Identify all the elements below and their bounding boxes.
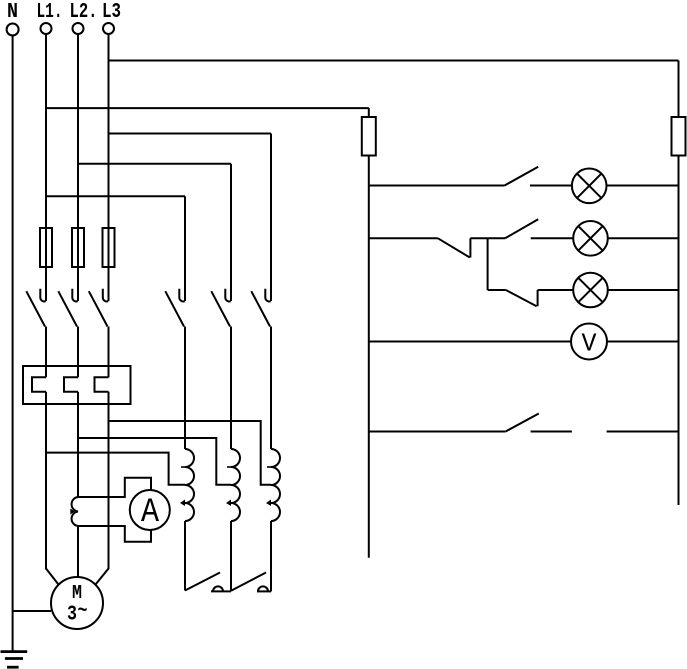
autotransformer winding tap arrow xyxy=(226,500,231,507)
star contact KM2-1 hook xyxy=(213,586,223,591)
wire tap line phase1 xyxy=(46,453,185,485)
fuse FU1 xyxy=(40,228,52,267)
contactor KM1 pole 1 blade xyxy=(165,291,184,326)
control bus right vertical upper xyxy=(678,61,680,118)
contactor KM1 pole 2 blade xyxy=(211,291,230,326)
contactor KM1 pole 3 hook xyxy=(265,289,270,302)
motor M circle xyxy=(51,577,103,629)
wire branch 1 to winding xyxy=(184,327,186,450)
row1 switch blade xyxy=(505,167,539,186)
autotransformer winding 2 xyxy=(231,449,240,521)
voltmeter PV xyxy=(571,324,607,360)
terminal L1 xyxy=(41,23,52,34)
svg-text:L3: L3 xyxy=(102,1,121,24)
winding cusp tick xyxy=(267,466,271,468)
winding cusp tick xyxy=(227,466,231,468)
contactor KM1 pole 1 hook xyxy=(179,289,184,302)
autotransformer winding 3 xyxy=(271,449,280,521)
lamp HL3 xyxy=(573,273,608,308)
contactor KM1 pole 2 hook xyxy=(225,289,230,302)
star contact KM2-1 blade xyxy=(185,573,220,591)
row5 switch blade xyxy=(506,414,539,432)
row1 lamp wire left xyxy=(369,185,505,187)
terminal L3 xyxy=(103,23,114,34)
terminal N xyxy=(7,24,19,36)
thermal relay FR heater 2 xyxy=(64,377,78,392)
wire tap line phase3 xyxy=(109,421,272,485)
wire branch 2 to winding xyxy=(230,327,232,450)
selector SA bar upper xyxy=(469,238,471,257)
breaker QS pole 1 blade xyxy=(26,291,45,326)
row2 wire mid2 xyxy=(531,237,574,239)
terminal L2 xyxy=(73,23,84,34)
row3 wire left xyxy=(488,289,506,291)
thermal relay FR heater 1 xyxy=(32,377,46,392)
ground xyxy=(1,652,28,668)
wire L2 to motor xyxy=(77,526,79,577)
wire L1 vertical upper xyxy=(45,34,47,301)
wire L3 below QS xyxy=(108,327,110,378)
row3 wire right xyxy=(608,289,679,291)
contactor KM branch 3 wire upper xyxy=(270,134,272,302)
wire L1 branch to KM branch 1 xyxy=(46,195,185,197)
row1 lamp wire mid xyxy=(530,185,573,187)
row2 wire right xyxy=(608,237,679,239)
wire L1 below FR to motor xyxy=(46,392,59,585)
wire L1 below QS xyxy=(45,327,47,378)
thermal relay FR heater 3 xyxy=(95,377,109,392)
star contact KM2-2 rail xyxy=(257,590,271,592)
contactor KM branch 1 wire upper xyxy=(184,196,186,301)
wire N to motor frame xyxy=(13,610,51,612)
breaker QS pole 1 hook xyxy=(40,289,45,302)
control fuse FU4 wire upper xyxy=(368,108,370,117)
autotransformer winding tap arrow xyxy=(180,500,185,507)
wire L2 below QS xyxy=(77,327,79,378)
lamp HL1 xyxy=(572,169,607,204)
selector SA blade lower xyxy=(506,290,537,306)
current transformer winding on L2 xyxy=(72,497,78,526)
fuse FU2 xyxy=(72,228,84,267)
svg-text:L1.: L1. xyxy=(37,1,63,24)
ammeter loop top wire xyxy=(78,478,151,497)
breaker QS pole 2 hook xyxy=(72,289,77,302)
lamp HL2 xyxy=(573,221,608,256)
wire L2 branch to KM branch 2 xyxy=(78,163,231,165)
wire N vertical xyxy=(12,35,14,652)
wire L3 vertical upper xyxy=(108,34,110,301)
row2 wire left xyxy=(369,237,438,239)
wire tap line phase2 xyxy=(78,438,231,485)
control fuse FU5 xyxy=(672,117,686,156)
breaker QS pole 2 blade xyxy=(58,291,77,326)
svg-text:N: N xyxy=(7,1,18,24)
row1 lamp wire right xyxy=(607,185,679,187)
contactor KM1 pole 3 blade xyxy=(251,291,270,326)
ammeter PA xyxy=(130,490,170,530)
wire L1 to control fuse column xyxy=(46,107,369,109)
star contact KM2-2 hook xyxy=(258,586,268,591)
wire L3 branch to KM branch 3 xyxy=(109,133,272,135)
row2 switch blade xyxy=(505,219,538,238)
selector crossover vertical xyxy=(487,238,489,290)
svg-text:3: 3 xyxy=(67,604,77,627)
breaker QS pole 3 blade xyxy=(89,291,108,326)
selector SA blade upper xyxy=(438,238,470,257)
wire L3 below FR to motor xyxy=(95,392,108,585)
svg-text:L2.: L2. xyxy=(70,1,98,24)
wire L2 below FR xyxy=(77,392,79,497)
ammeter loop bottom wire xyxy=(78,526,151,542)
svg-text:~: ~ xyxy=(78,601,88,624)
star contact KM2-1 rail xyxy=(211,590,231,592)
breaker QS pole 3 hook xyxy=(103,289,108,302)
wire top rail L3 to right column xyxy=(109,60,679,62)
control bus left vertical xyxy=(368,156,370,558)
wire winding 2 bottom xyxy=(230,521,232,591)
winding cusp tick xyxy=(181,466,185,468)
svg-text:V: V xyxy=(582,329,597,359)
autotransformer winding 1 xyxy=(185,449,194,521)
current transformer cusp mark xyxy=(70,509,75,515)
wire winding 3 bottom xyxy=(270,521,272,591)
row5 wire left xyxy=(369,431,506,433)
row4 wire left xyxy=(369,341,571,343)
contactor KM branch 2 wire upper xyxy=(230,164,232,301)
row4 wire right xyxy=(607,341,679,343)
autotransformer winding tap arrow xyxy=(266,500,271,507)
row3 wire mid xyxy=(538,289,574,291)
svg-text:A: A xyxy=(141,494,160,532)
row5 wire mid xyxy=(531,431,572,433)
star contact KM2-2 blade xyxy=(232,573,267,591)
row5 wire right xyxy=(607,431,679,433)
wire branch 3 to winding xyxy=(270,327,272,450)
control bus right vertical lower xyxy=(678,156,680,506)
selector SA bar lower xyxy=(537,290,539,306)
wire winding 1 bottom xyxy=(184,521,186,591)
thermal relay FR box xyxy=(23,366,131,404)
fuse FU3 xyxy=(103,228,115,267)
row2 wire mid1 xyxy=(470,237,505,239)
wire L2 vertical upper xyxy=(77,34,79,301)
control fuse FU4 xyxy=(362,117,376,156)
